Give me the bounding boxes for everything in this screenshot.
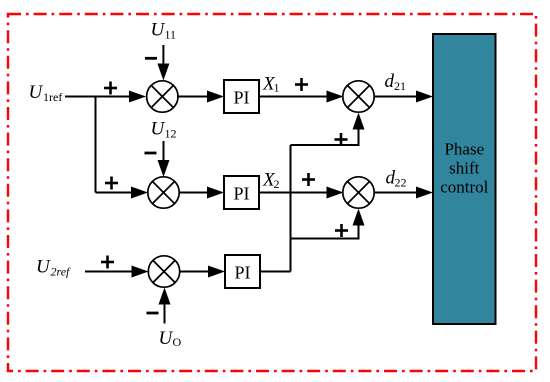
wire S3 to PI3 <box>179 266 225 278</box>
summing junction S3 <box>148 256 179 287</box>
label U1ref <box>29 82 63 104</box>
minus sign at S2 top input <box>145 152 157 155</box>
svg-text:11: 11 <box>165 28 177 42</box>
plus sign at S3 input <box>101 256 114 269</box>
PI controller PI2 <box>224 176 259 209</box>
svg-text:21: 21 <box>394 79 406 93</box>
wire PI1 to summing junction S4 <box>259 91 344 103</box>
wire riser to S4 bottom <box>291 113 365 146</box>
wire S2 to PI2 <box>179 187 225 199</box>
summing junction S5 <box>343 177 374 208</box>
wire branch node at U1ref line <box>95 97 97 193</box>
PI controller PI1 <box>224 80 259 113</box>
svg-text:U: U <box>151 20 166 41</box>
summing junction S4 <box>343 81 374 112</box>
wire U11 to S1 <box>157 45 169 81</box>
plus sign at S5 bottom input <box>335 224 348 237</box>
svg-text:shift: shift <box>449 159 480 178</box>
label UO <box>159 328 182 349</box>
summing junction S1 <box>147 81 178 112</box>
plus sign at S4 left input <box>295 78 308 91</box>
svg-text:U: U <box>29 82 44 103</box>
svg-text:PI: PI <box>234 263 250 283</box>
label X1 <box>262 74 280 95</box>
svg-text:22: 22 <box>395 176 407 190</box>
svg-text:1: 1 <box>274 81 280 95</box>
phase shift control block U10 <box>433 34 496 324</box>
wire S1 to PI1 <box>177 91 224 103</box>
label U12 <box>151 119 177 141</box>
wire riser vertical <box>290 145 292 272</box>
wire branch to summing junction S2 <box>96 187 149 199</box>
label d22 <box>386 168 407 190</box>
label U11 <box>151 20 177 42</box>
svg-text:12: 12 <box>165 127 177 141</box>
wire riser to S5 bottom <box>291 209 365 239</box>
wire U12 to S2 <box>158 141 170 177</box>
wire PI2 to summing junction S5 <box>259 187 344 199</box>
wire U1ref to summing junction S1 <box>65 91 146 103</box>
svg-text:d: d <box>385 71 395 92</box>
svg-text:PI: PI <box>233 88 249 108</box>
svg-text:control: control <box>440 178 488 197</box>
wire S4 to phase shift control <box>374 91 434 103</box>
svg-text:U: U <box>159 328 174 349</box>
label d21 <box>385 71 407 93</box>
wire UO to S3 bottom <box>159 288 171 324</box>
wire S5 to phase shift control <box>374 187 434 199</box>
svg-text:2: 2 <box>274 177 280 191</box>
summing junction S2 <box>148 177 179 208</box>
svg-text:U: U <box>151 119 166 140</box>
svg-text:O: O <box>173 335 182 349</box>
plus sign at S4 bottom input <box>335 133 348 146</box>
label U2ref <box>36 257 71 279</box>
svg-text:U: U <box>36 257 51 278</box>
plus sign at S5 left input <box>302 173 315 186</box>
wire U2ref to summing junction S3 <box>85 266 149 278</box>
svg-text:1ref: 1ref <box>43 90 62 104</box>
minus sign at S1 top input <box>145 57 157 60</box>
PI controller PI3 <box>225 255 260 288</box>
svg-text:2ref: 2ref <box>51 265 72 279</box>
plus sign at S1 input <box>104 82 117 95</box>
wire PI3 output to riser <box>260 271 291 273</box>
svg-text:Phase: Phase <box>444 140 484 159</box>
plus sign at S2 input <box>105 177 118 190</box>
label X2 <box>262 170 280 192</box>
minus sign at S3 bottom input <box>147 312 159 315</box>
svg-text:PI: PI <box>233 184 249 204</box>
